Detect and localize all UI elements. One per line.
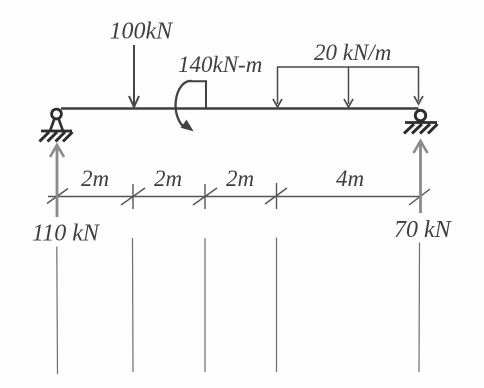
svg-text:2m: 2m — [81, 166, 109, 191]
dimension line — [48, 196, 420, 198]
support A ground line — [41, 130, 72, 133]
support A pin circle — [52, 109, 62, 119]
beam — [61, 107, 419, 110]
construction line x=419 — [418, 243, 421, 373]
support B roller circle — [415, 110, 425, 120]
support A hatching — [40, 132, 73, 142]
construction line x=57 — [56, 247, 59, 375]
svg-text:140kN-m: 140kN-m — [178, 52, 262, 77]
svg-text:100kN: 100kN — [110, 19, 175, 45]
tick at x=205 — [204, 184, 206, 209]
dist arrow 3 — [418, 67, 420, 101]
support B ground line — [405, 121, 437, 124]
moment 140kN-m symbol — [191, 81, 206, 108]
support B hatching — [404, 124, 438, 134]
support A legs — [50, 119, 63, 132]
reaction arrow left (110 kN) — [56, 148, 59, 217]
dist arrow 1 — [277, 67, 279, 104]
construction line x=133 — [132, 238, 135, 372]
tick at x=277 — [276, 183, 278, 209]
svg-text:110 kN: 110 kN — [32, 221, 101, 247]
distributed load 20 kN/m top line — [277, 66, 419, 68]
dist arrow 2 — [348, 67, 350, 104]
svg-text:20 kN/m: 20 kN/m — [314, 40, 391, 65]
construction line x=205 — [204, 238, 206, 372]
svg-text:4m: 4m — [336, 166, 364, 191]
tick at x=420 — [409, 189, 430, 205]
svg-text:2m: 2m — [154, 166, 182, 191]
svg-text:2m: 2m — [226, 166, 254, 191]
construction line x=277 — [276, 238, 278, 373]
tick at x=133 — [132, 184, 134, 209]
point load 100kN arrow — [133, 45, 135, 105]
tick at x=57 — [47, 189, 68, 204]
reaction arrow right (70 kN) — [419, 144, 422, 213]
svg-text:70 kN: 70 kN — [394, 217, 453, 243]
